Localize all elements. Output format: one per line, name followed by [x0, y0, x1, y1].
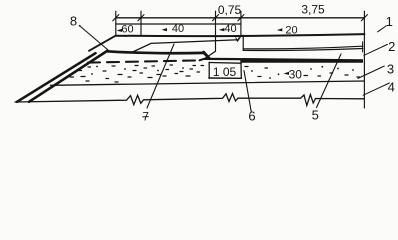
svg-text:1 05: 1 05 — [213, 65, 237, 79]
svg-text:2: 2 — [388, 39, 395, 54]
svg-text:4: 4 — [388, 80, 395, 95]
svg-text:8: 8 — [70, 14, 77, 29]
svg-text:6: 6 — [248, 109, 255, 124]
svg-text:40: 40 — [224, 23, 236, 35]
svg-text:3: 3 — [387, 62, 394, 77]
svg-text:1: 1 — [386, 14, 393, 29]
svg-text:20: 20 — [285, 24, 297, 36]
svg-text:3,75: 3,75 — [301, 2, 325, 16]
svg-text:40: 40 — [172, 23, 184, 35]
svg-text:5: 5 — [312, 108, 319, 123]
svg-text:60: 60 — [121, 23, 133, 35]
svg-text:30: 30 — [289, 67, 303, 81]
svg-text:0,75: 0,75 — [218, 3, 242, 17]
